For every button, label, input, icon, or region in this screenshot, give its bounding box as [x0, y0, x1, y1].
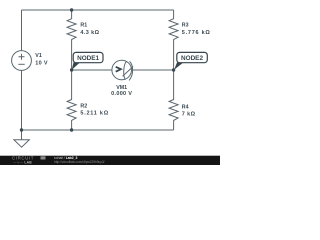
- svg-text:R1: R1: [80, 23, 87, 29]
- svg-text:http://circuitlab.com/c5pw22lf: http://circuitlab.com/c5pw22lfh9uy3/: [54, 160, 105, 164]
- svg-text:7 kΩ: 7 kΩ: [182, 112, 196, 118]
- svg-text:10 V: 10 V: [35, 61, 48, 67]
- svg-text:R2: R2: [80, 104, 87, 110]
- svg-text:4.3 kΩ: 4.3 kΩ: [80, 30, 99, 36]
- svg-text:VM1: VM1: [116, 85, 127, 91]
- svg-text:R3: R3: [182, 23, 189, 29]
- svg-text:R4: R4: [182, 105, 189, 111]
- svg-text:5.776 kΩ: 5.776 kΩ: [182, 30, 211, 36]
- svg-text:NODE1: NODE1: [77, 55, 99, 62]
- svg-text:NODE2: NODE2: [181, 55, 203, 62]
- svg-text:—∿— LAB: —∿— LAB: [13, 160, 32, 164]
- svg-text:5.211 kΩ: 5.211 kΩ: [80, 111, 108, 117]
- svg-text:V1: V1: [35, 53, 42, 59]
- svg-text:0.000 V: 0.000 V: [111, 91, 132, 97]
